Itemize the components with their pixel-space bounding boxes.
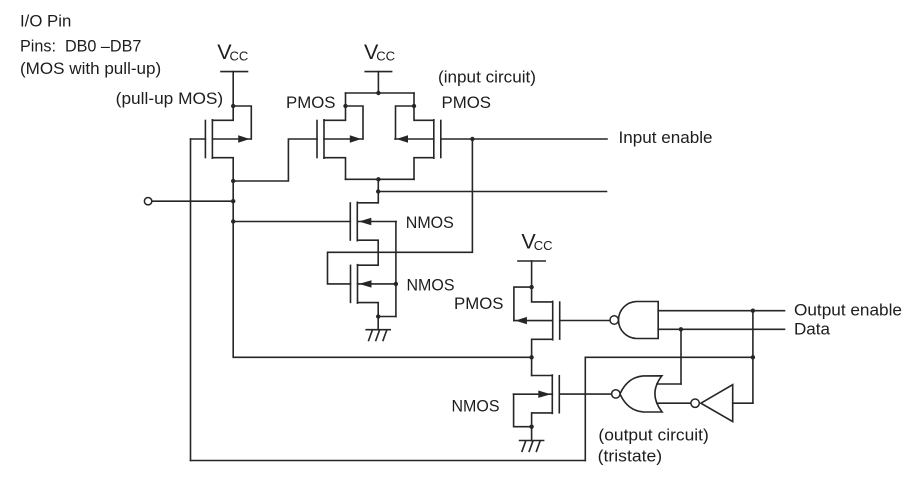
svg-text:CC: CC [230,49,249,64]
svg-text:NMOS: NMOS [406,213,454,232]
svg-text:Data: Data [794,320,831,339]
svg-text:I/O Pin: I/O Pin [20,11,71,30]
svg-text:(pull-up MOS): (pull-up MOS) [116,89,224,108]
svg-text:(tristate): (tristate) [598,446,662,465]
svg-text:Output enable: Output enable [794,300,902,319]
svg-text:CC: CC [376,49,395,64]
svg-text:NMOS: NMOS [452,397,500,416]
svg-text:PMOS: PMOS [454,294,504,313]
svg-text:(output circuit): (output circuit) [598,425,708,444]
svg-text:Input enable: Input enable [619,128,713,147]
svg-text:(input circuit): (input circuit) [438,68,536,87]
svg-text:NMOS: NMOS [407,276,455,295]
svg-text:(MOS with pull-up): (MOS with pull-up) [20,59,161,78]
svg-text:PMOS: PMOS [442,93,492,112]
svg-text:PMOS: PMOS [286,93,336,112]
svg-text:Pins: DB0 –DB7: Pins: DB0 –DB7 [20,37,141,56]
svg-text:CC: CC [534,238,553,253]
